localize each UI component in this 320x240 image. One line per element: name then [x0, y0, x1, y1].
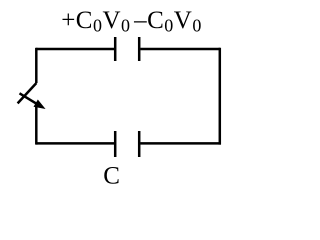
switch blade	[18, 83, 37, 103]
wire bottom-right segment	[140, 142, 221, 145]
svg-text:–C0V0: –C0V0	[133, 7, 202, 36]
wire top-right segment	[140, 48, 220, 51]
capacitor top, right plate	[138, 37, 141, 61]
wire right side	[219, 48, 222, 145]
svg-text:+C0V0: +C0V0	[61, 7, 130, 36]
capacitor top, left plate	[114, 37, 117, 61]
wire top-left segment	[36, 48, 114, 51]
switch closing arrowhead	[34, 100, 44, 108]
wire bottom-left segment	[36, 142, 114, 145]
capacitor C bottom, left plate	[114, 131, 117, 157]
switch closing arrow shaft	[20, 93, 38, 104]
capacitor C bottom, right plate	[138, 131, 141, 157]
wire left upper (switch top terminal)	[35, 48, 38, 83]
wire left lower (switch bottom terminal)	[35, 107, 38, 145]
svg-text:C: C	[103, 163, 120, 190]
